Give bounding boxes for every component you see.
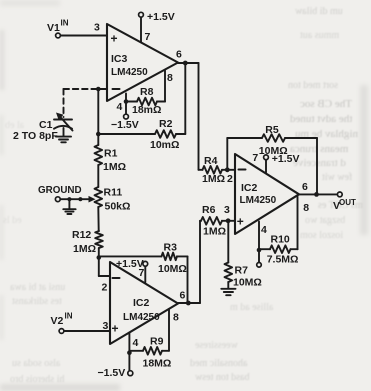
svg-text:7: 7 bbox=[145, 31, 151, 43]
svg-text:IC2: IC2 bbox=[133, 297, 150, 309]
svg-text:IC3: IC3 bbox=[111, 53, 128, 65]
svg-text:1MΩ: 1MΩ bbox=[73, 243, 96, 255]
svg-text:LM4250: LM4250 bbox=[111, 67, 148, 78]
svg-text:18mΩ: 18mΩ bbox=[132, 104, 161, 116]
svg-text:50kΩ: 50kΩ bbox=[105, 201, 131, 213]
svg-text:R3: R3 bbox=[164, 242, 178, 254]
svg-text:4: 4 bbox=[261, 224, 267, 236]
svg-text:+: + bbox=[237, 215, 244, 229]
svg-text:6: 6 bbox=[180, 290, 186, 302]
svg-text:IN: IN bbox=[61, 19, 69, 28]
svg-text:3: 3 bbox=[103, 320, 109, 332]
svg-text:+: + bbox=[112, 322, 119, 336]
svg-text:8: 8 bbox=[303, 202, 309, 214]
svg-text:IN: IN bbox=[65, 311, 73, 320]
svg-text:8: 8 bbox=[173, 312, 179, 324]
svg-text:4: 4 bbox=[117, 101, 123, 113]
svg-text:LM4250: LM4250 bbox=[240, 195, 277, 206]
svg-text:2 TO 8pF: 2 TO 8pF bbox=[13, 130, 58, 142]
svg-text:R4: R4 bbox=[204, 155, 218, 167]
svg-text:LM4250: LM4250 bbox=[123, 312, 160, 323]
svg-text:V2: V2 bbox=[51, 315, 64, 327]
svg-text:10MΩ: 10MΩ bbox=[158, 263, 187, 275]
svg-text:3: 3 bbox=[94, 22, 100, 34]
svg-text:3: 3 bbox=[224, 204, 230, 216]
svg-text:+1.5V: +1.5V bbox=[272, 153, 300, 165]
svg-text:R5: R5 bbox=[265, 124, 279, 136]
svg-text:18MΩ: 18MΩ bbox=[143, 357, 172, 369]
svg-text:6: 6 bbox=[176, 49, 182, 61]
svg-text:R6: R6 bbox=[202, 204, 216, 216]
svg-text:R8: R8 bbox=[140, 86, 154, 98]
svg-text:R2: R2 bbox=[159, 118, 173, 130]
svg-text:−1.5V: −1.5V bbox=[98, 367, 126, 379]
svg-text:4: 4 bbox=[133, 337, 139, 349]
svg-text:6: 6 bbox=[302, 181, 308, 193]
svg-text:2: 2 bbox=[102, 282, 108, 294]
svg-text:−1.5V: −1.5V bbox=[111, 119, 139, 131]
svg-text:R7: R7 bbox=[235, 265, 249, 277]
svg-text:+1.5V: +1.5V bbox=[147, 11, 175, 23]
svg-text:OUT: OUT bbox=[339, 198, 356, 207]
svg-text:R11: R11 bbox=[104, 187, 123, 199]
svg-text:7: 7 bbox=[252, 152, 258, 164]
svg-text:R9: R9 bbox=[150, 336, 164, 348]
svg-text:7: 7 bbox=[139, 267, 145, 279]
svg-text:10mΩ: 10mΩ bbox=[150, 139, 179, 151]
svg-text:10MΩ: 10MΩ bbox=[233, 277, 262, 289]
svg-text:1MΩ: 1MΩ bbox=[103, 161, 126, 173]
svg-text:7.5MΩ: 7.5MΩ bbox=[267, 254, 299, 266]
svg-text:R10: R10 bbox=[271, 234, 290, 246]
svg-text:1MΩ: 1MΩ bbox=[203, 226, 226, 238]
svg-text:2: 2 bbox=[227, 173, 233, 185]
svg-text:R12: R12 bbox=[72, 229, 91, 241]
svg-text:8: 8 bbox=[167, 72, 173, 84]
svg-text:R1: R1 bbox=[104, 148, 118, 160]
svg-text:1MΩ: 1MΩ bbox=[202, 173, 225, 185]
svg-text:V1: V1 bbox=[47, 22, 60, 34]
svg-text:GROUND: GROUND bbox=[38, 185, 82, 196]
svg-text:IC2: IC2 bbox=[241, 182, 258, 194]
svg-text:+: + bbox=[111, 32, 118, 46]
